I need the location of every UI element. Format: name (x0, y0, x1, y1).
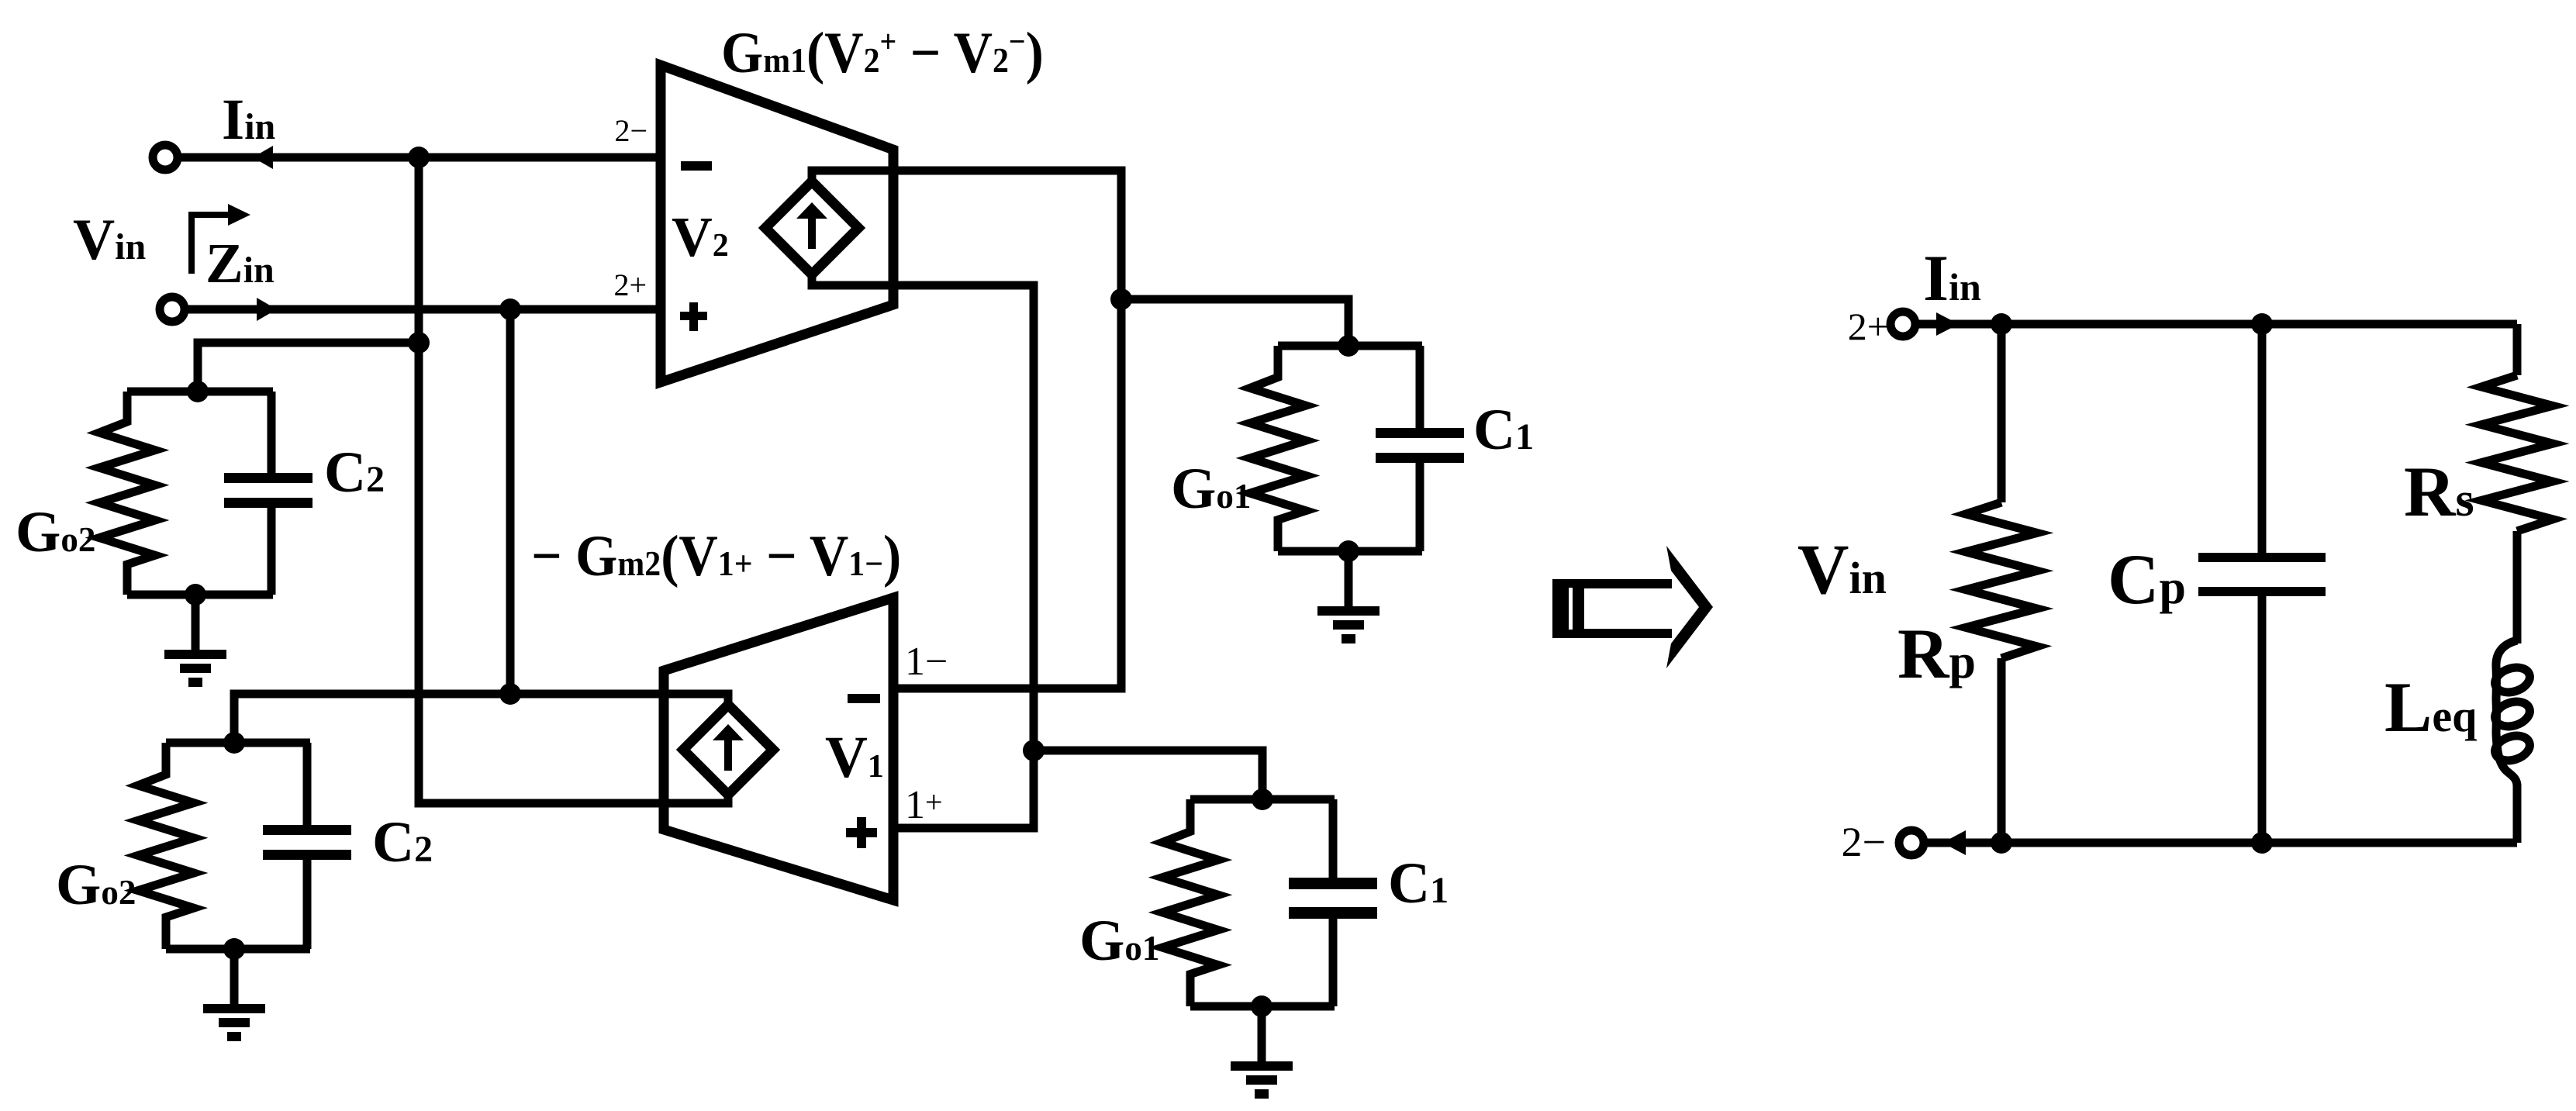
wire Gm1 out top (812, 171, 1121, 688)
terminal 2- right (1899, 830, 1924, 855)
wire Go2-2 bottom rail (166, 945, 310, 954)
junction dot Cp bottom (2251, 832, 2273, 854)
wire Iin (178, 154, 661, 162)
wire Go1-2 top rail (1190, 795, 1335, 804)
svg-text:+: + (925, 785, 943, 819)
node Go1-2 top (1252, 788, 1273, 810)
capacitor C2 (2) (303, 743, 312, 825)
junction dot x658 y895 (499, 683, 521, 705)
node Go2-2 top (223, 732, 245, 754)
ground below Go1-1 (1345, 551, 1353, 606)
terminal 2- input (Iin) (153, 145, 178, 170)
wire Vin 2+ (185, 305, 661, 314)
ground below Go2-2 (230, 949, 239, 1004)
svg-text:2+: 2+ (613, 267, 647, 302)
svg-text:1: 1 (905, 783, 925, 827)
svg-text:2−: 2− (1842, 819, 1886, 865)
terminal 2+ input (Vin) (160, 297, 185, 322)
op-amp Gm2 trapezoid (664, 598, 893, 900)
resistor Rp (1998, 324, 2006, 502)
svg-text:1−: 1− (905, 640, 948, 684)
plus mark Gm2 (846, 828, 877, 837)
implication arrow (1552, 579, 1584, 638)
wire Go1-1 top rail (1278, 342, 1422, 350)
terminal 2+ right (1891, 312, 1915, 336)
wire node V1 vertical (x=540) (419, 157, 728, 803)
node Go2-1 bottom (185, 584, 206, 606)
node Go2-1 top (187, 381, 209, 402)
junction dot x540 y442 (408, 332, 430, 354)
wire to Go1-2 (1034, 750, 1262, 799)
current source diamond Gm2 (683, 705, 773, 795)
plus mark Gm1 (680, 312, 707, 320)
wire Go1-1 bottom rail (1278, 547, 1422, 556)
svg-text:− Gm2(V1+ − V1−): − Gm2(V1+ − V1−) (531, 523, 901, 588)
svg-text:2−: 2− (614, 113, 647, 148)
capacitor Cp (2258, 324, 2267, 553)
junction dot on Iin wire (408, 147, 430, 168)
svg-text:2+: 2+ (1848, 305, 1889, 348)
minus mark Gm1 (681, 161, 712, 171)
minus mark Gm2 (848, 694, 880, 703)
resistor Go2 (1) (99, 392, 155, 595)
Zin bent arrow (192, 215, 231, 274)
resistor Go2 (2) (138, 743, 194, 949)
resistor Rs (2513, 324, 2522, 375)
arrowhead 2- right (points left) (1942, 830, 1966, 855)
node Go1-1 top (1338, 335, 1359, 357)
resistor Go1 (1) (1250, 346, 1306, 551)
wire Go2-1 top rail (127, 388, 273, 396)
junction dot on Vin wire (499, 298, 521, 320)
arrowhead Iin right (points right) (1936, 312, 1959, 336)
capacitor C1 (2) (1329, 799, 1338, 878)
resistor Go1 (2) (1162, 799, 1218, 1006)
op-amp Gm1 trapezoid (661, 65, 893, 382)
wire Go1-2 bottom rail (1190, 1002, 1335, 1011)
wire right edge (2513, 784, 2522, 843)
junction dot x1446 y386 (1110, 288, 1132, 310)
capacitor C1 (1) (1416, 346, 1424, 428)
junction dot Cp top (2251, 313, 2273, 335)
node Go1-2 bottom (1251, 995, 1272, 1017)
junction dot x1333 y968 (node V1) (1023, 740, 1045, 761)
wire Go2-2 top rail (166, 739, 310, 747)
arrowhead Iin (points left) (253, 146, 273, 169)
wire to Go1-1 (1121, 299, 1348, 346)
node Go2-2 bottom (223, 938, 245, 960)
wire bottom rail right (1924, 839, 2517, 847)
ground below Go1-2 (1258, 1006, 1266, 1061)
arrowhead Vin (points right) (257, 298, 277, 321)
junction dot Rp bottom (1991, 832, 2012, 854)
wire node V2 vertical (x=658) (506, 309, 515, 694)
current source diamond Gm1 (765, 181, 858, 274)
junction dot Rp top (1991, 313, 2012, 335)
node Go1-1 bottom (1338, 540, 1359, 562)
wire top rail right (1915, 320, 2517, 329)
inductor Leq (2496, 640, 2517, 786)
capacitor C2 (1) (268, 392, 276, 473)
wire Gm1 out bottom (812, 274, 1034, 828)
ground below Go2-1 (192, 595, 200, 650)
wire Go2-1 bottom rail (127, 591, 273, 599)
wire Gm2 top rail to Go2-2 (234, 694, 728, 743)
wire to Go2-1 top (198, 343, 419, 392)
